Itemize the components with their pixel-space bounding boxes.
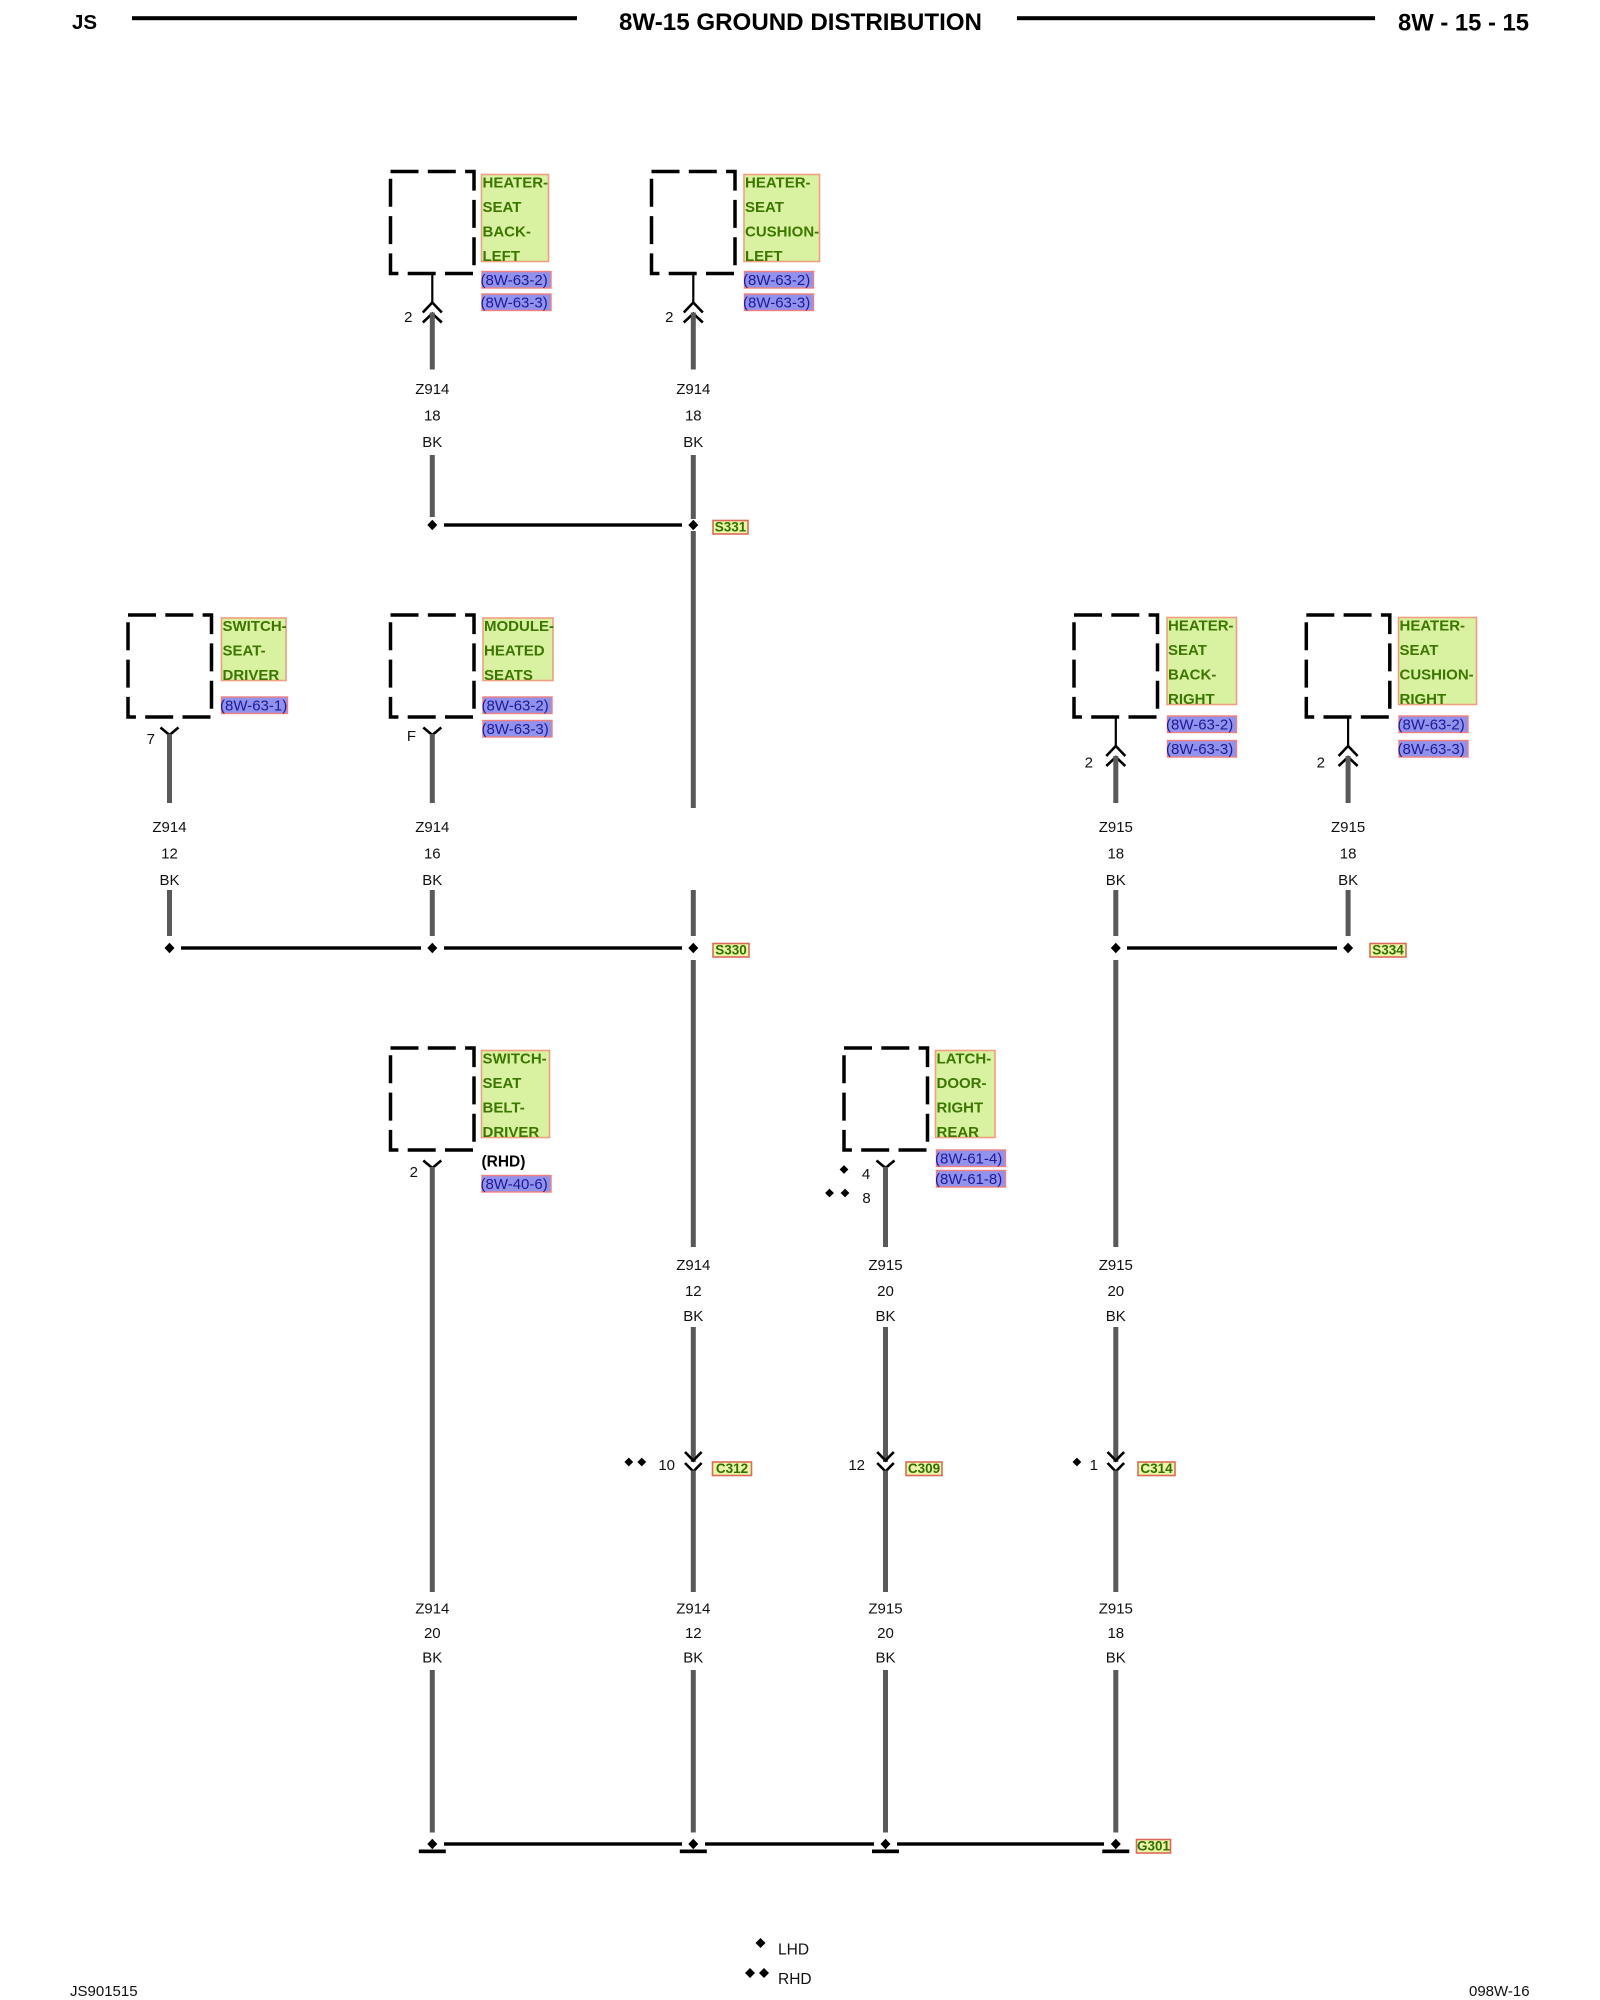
svg-text:BK: BK [422, 872, 442, 889]
ground G301 junction diamond col B [688, 1839, 698, 1850]
svg-text:SEAT: SEAT [1400, 642, 1439, 659]
svg-text:CUSHION-: CUSHION- [745, 224, 819, 241]
wire Z914 18 BK to splice S331 (cushion-left) [691, 455, 696, 519]
wire Z914 16 BK upper segment (module) [430, 734, 435, 803]
svg-text:HEATER-: HEATER- [1400, 618, 1466, 635]
svg-text:(8W-63-2): (8W-63-2) [481, 272, 548, 289]
svg-text:RIGHT: RIGHT [937, 1100, 984, 1117]
svg-text:RIGHT: RIGHT [1400, 691, 1447, 708]
svg-text:BK: BK [1338, 872, 1358, 889]
connector HEATER-SEAT BACK-RIGHT [1074, 615, 1158, 717]
svg-text:18: 18 [1340, 846, 1357, 863]
connector label C309 [906, 1461, 942, 1476]
ref 8W-63-1 (switch-seat-driver) [220, 697, 288, 715]
ground G301 junction diamond col C [881, 1839, 891, 1850]
svg-text:BK: BK [1106, 872, 1126, 889]
svg-text:BK: BK [683, 1650, 703, 1667]
connector label C314 [1138, 1461, 1175, 1476]
svg-text:RHD: RHD [778, 1971, 812, 1988]
wire Z914 12 BK from S330 down (center column) [691, 960, 696, 1247]
svg-text:BACK-: BACK- [483, 224, 531, 241]
ref 8W-63-3 (cushion-left) [743, 294, 814, 312]
svg-text:LATCH-: LATCH- [937, 1051, 992, 1068]
svg-text:Z915: Z915 [868, 1601, 902, 1618]
svg-text:(8W-63-3): (8W-63-3) [482, 721, 549, 738]
connector HEATER-SEAT CUSHION-RIGHT [1306, 615, 1390, 717]
pin 1 LHD marker diamond (C314) [1073, 1458, 1082, 1467]
svg-text:12: 12 [685, 1283, 702, 1300]
svg-text:20: 20 [424, 1625, 441, 1642]
svg-text:(8W-63-3): (8W-63-3) [1166, 741, 1233, 758]
ref 8W-63-3 (back-left) [481, 294, 552, 312]
wire Z914 18 BK through S330 (center column) [691, 890, 696, 936]
label HEATER-SEAT BACK-LEFT [482, 175, 549, 266]
svg-text:G301: G301 [1137, 1839, 1171, 1854]
svg-text:(8W-63-3): (8W-63-3) [481, 295, 548, 312]
wire Z914 12 BK upper segment (switch-seat-driver) [167, 734, 172, 803]
splice S330 bus line right segment [444, 946, 682, 949]
svg-text:18: 18 [1107, 1625, 1124, 1642]
wire Z914 18 BK upper segment (cushion-left) [691, 313, 696, 370]
ref 8W-61-4 (latch) [935, 1150, 1006, 1168]
svg-text:12: 12 [161, 846, 178, 863]
svg-text:HEATER-: HEATER- [483, 175, 549, 192]
connector label C312 [713, 1461, 752, 1476]
wire Z915 20 BK from S334 down (right column) [1113, 960, 1118, 1247]
svg-text:Z914: Z914 [415, 1601, 449, 1618]
svg-text:Z915: Z915 [1099, 819, 1133, 836]
svg-text:(8W-63-2): (8W-63-2) [482, 698, 549, 715]
ref 8W-40-6 (seat belt switch) [481, 1176, 552, 1194]
svg-text:SWITCH-: SWITCH- [483, 1051, 547, 1068]
splice S334 bus line [1127, 946, 1337, 949]
connector fork symbol below LATCH-DOOR-RIGHT REAR [877, 1161, 895, 1169]
wire Z915 20 BK below C309 [883, 1471, 888, 1593]
ground G301 bus line segment 1 [444, 1842, 682, 1845]
inline connector symbol below HEATER-SEAT CUSHION-LEFT [684, 274, 703, 323]
svg-text:18: 18 [1107, 846, 1124, 863]
wire Z914 18 BK from S331 to label block [691, 531, 696, 808]
svg-text:HEATER-: HEATER- [745, 175, 811, 192]
label MODULE-HEATED SEATS [483, 618, 554, 684]
svg-text:(8W-63-2): (8W-63-2) [1398, 717, 1465, 734]
svg-text:SEAT: SEAT [1168, 642, 1207, 659]
svg-text:JS901515: JS901515 [70, 1983, 138, 2000]
wire Z914 18 BK upper segment (back-left) [430, 313, 435, 370]
connector HEATER-SEAT CUSHION-LEFT [652, 172, 736, 274]
svg-text:2: 2 [410, 1164, 418, 1181]
wire Z915 20 BK to ground G301 [883, 1670, 888, 1833]
svg-text:7: 7 [147, 731, 155, 748]
svg-text:BK: BK [1106, 1650, 1126, 1667]
ref 8W-63-3 (module-heated seats) [482, 721, 553, 739]
label LATCH-DOOR-RIGHT REAR [936, 1051, 996, 1142]
svg-text:SEAT: SEAT [483, 199, 522, 216]
svg-text:BK: BK [422, 1650, 442, 1667]
svg-text:12: 12 [848, 1457, 865, 1474]
svg-text:098W-16: 098W-16 [1469, 1983, 1530, 2000]
svg-text:S334: S334 [1372, 943, 1404, 958]
svg-text:DOOR-: DOOR- [937, 1075, 987, 1092]
svg-text:(RHD): (RHD) [482, 1154, 526, 1171]
wire Z914 12 BK below C312 [691, 1471, 696, 1593]
svg-text:Z915: Z915 [1099, 1257, 1133, 1274]
svg-text:F: F [407, 728, 416, 745]
svg-text:2: 2 [1317, 755, 1325, 772]
ground symbol bar col C [872, 1850, 899, 1854]
svg-text:Z914: Z914 [415, 819, 449, 836]
wire Z915 18 BK upper segment (back-right) [1113, 756, 1118, 803]
svg-text:BK: BK [422, 434, 442, 451]
wire Z915 18 BK upper segment (cushion-right) [1346, 756, 1351, 803]
svg-text:Z915: Z915 [1099, 1601, 1133, 1618]
svg-text:Z914: Z914 [152, 819, 186, 836]
svg-text:HEATED: HEATED [484, 643, 545, 660]
wire Z915 20 BK upper segment (latch) [883, 1167, 888, 1247]
svg-text:Z914: Z914 [676, 1601, 710, 1618]
header rule left [132, 16, 577, 20]
splice S334 junction diamond left [1111, 943, 1121, 954]
svg-text:Z914: Z914 [676, 381, 710, 398]
svg-text:RIGHT: RIGHT [1168, 691, 1215, 708]
svg-text:SEAT: SEAT [483, 1075, 522, 1092]
ref 8W-63-2 (module-heated seats) [482, 697, 553, 715]
inline connector symbol below HEATER-SEAT CUSHION-RIGHT [1339, 717, 1358, 766]
svg-text:C309: C309 [908, 1461, 940, 1476]
splice S330 junction diamond far-left [165, 943, 175, 954]
svg-text:4: 4 [862, 1166, 870, 1183]
wire Z914 12 BK to connector C312 [691, 1327, 696, 1462]
ref 8W-63-2 (cushion-right) [1398, 716, 1469, 734]
connector MODULE-HEATED SEATS [391, 615, 475, 717]
svg-text:SEATS: SEATS [484, 667, 533, 684]
svg-text:Z914: Z914 [676, 1257, 710, 1274]
svg-text:1: 1 [1090, 1457, 1098, 1474]
ref 8W-63-2 (back-right) [1166, 716, 1237, 734]
splice label S331 [713, 520, 748, 535]
label SWITCH-SEAT BELT-DRIVER [482, 1051, 550, 1142]
inline connector symbol below HEATER-SEAT BACK-LEFT [423, 274, 442, 323]
wire Z915 20 BK to connector C309 [883, 1327, 888, 1462]
svg-text:16: 16 [424, 846, 441, 863]
connector HEATER-SEAT BACK-LEFT [391, 172, 475, 274]
svg-text:(8W-63-3): (8W-63-3) [743, 295, 810, 312]
svg-text:10: 10 [658, 1457, 675, 1474]
svg-text:S331: S331 [715, 520, 747, 535]
svg-text:(8W-63-3): (8W-63-3) [1398, 741, 1465, 758]
pin 10 RHD marker diamonds (C312) [624, 1458, 633, 1467]
svg-text:BK: BK [683, 1308, 703, 1325]
svg-text:BK: BK [875, 1650, 895, 1667]
connector C314 chevron symbol [1108, 1452, 1125, 1472]
ground symbol bar col D [1102, 1850, 1129, 1854]
svg-text:LEFT: LEFT [745, 248, 783, 265]
svg-text:C312: C312 [716, 1461, 748, 1476]
connector fork symbol below SWITCH-SEAT BELT-DRIVER [423, 1161, 441, 1169]
svg-text:2: 2 [665, 309, 673, 326]
label HEATER-SEAT BACK-RIGHT [1167, 618, 1237, 709]
svg-text:(8W-63-2): (8W-63-2) [743, 272, 810, 289]
svg-text:2: 2 [404, 309, 412, 326]
svg-text:8W - 15 - 15: 8W - 15 - 15 [1398, 10, 1529, 37]
svg-text:12: 12 [685, 1625, 702, 1642]
wire Z914 18 BK to splice S331 (back-left) [430, 455, 435, 517]
splice S331 junction diamond left [427, 520, 437, 531]
splice label S330 [713, 943, 749, 958]
svg-text:18: 18 [424, 408, 441, 425]
wire Z914 12 BK to ground G301 [691, 1670, 696, 1833]
connector C312 chevron symbol [685, 1452, 702, 1472]
svg-text:8W-15 GROUND DISTRIBUTION: 8W-15 GROUND DISTRIBUTION [619, 9, 982, 36]
svg-text:SEAT: SEAT [745, 199, 784, 216]
splice S331 bus line [444, 523, 682, 526]
wire Z915 18 BK to splice S334 (cushion-right) [1346, 890, 1351, 936]
legend LHD marker diamond [756, 1938, 766, 1948]
svg-text:BELT-: BELT- [483, 1100, 525, 1117]
ground G301 junction diamond col A [427, 1839, 437, 1850]
svg-text:LEFT: LEFT [483, 248, 521, 265]
splice S331 junction diamond right [688, 520, 698, 531]
svg-text:CUSHION-: CUSHION- [1400, 667, 1474, 684]
svg-text:18: 18 [685, 408, 702, 425]
svg-text:DRIVER: DRIVER [223, 667, 280, 684]
svg-text:S330: S330 [715, 943, 747, 958]
svg-text:2: 2 [1085, 755, 1093, 772]
svg-text:20: 20 [877, 1283, 894, 1300]
svg-text:HEATER-: HEATER- [1168, 618, 1234, 635]
ground G301 junction diamond col D [1111, 1839, 1121, 1850]
legend RHD marker diamonds [745, 1968, 755, 1978]
connector SWITCH-SEAT-DRIVER [128, 615, 212, 717]
svg-text:BK: BK [683, 434, 703, 451]
svg-text:REAR: REAR [937, 1124, 980, 1141]
label HEATER-SEAT CUSHION-LEFT [744, 175, 820, 266]
svg-text:LHD: LHD [778, 1942, 809, 1959]
svg-text:BK: BK [875, 1308, 895, 1325]
svg-text:MODULE-: MODULE- [484, 618, 554, 635]
svg-text:BK: BK [159, 872, 179, 889]
svg-text:Z915: Z915 [1331, 819, 1365, 836]
svg-text:BK: BK [1106, 1308, 1126, 1325]
ground symbol bar col A [419, 1850, 446, 1854]
svg-text:8: 8 [862, 1190, 870, 1207]
connector C309 chevron symbol [877, 1452, 894, 1472]
ground G301 bus line segment 2 [705, 1842, 874, 1845]
ref 8W-63-2 (cushion-left) [743, 272, 814, 290]
label SWITCH-SEAT-DRIVER [222, 618, 287, 684]
svg-text:20: 20 [1107, 1283, 1124, 1300]
splice S330 bus line left segment [181, 946, 421, 949]
svg-text:SWITCH-: SWITCH- [223, 618, 287, 635]
svg-text:(8W-61-8): (8W-61-8) [935, 1171, 1002, 1188]
ground symbol bar col B [680, 1850, 707, 1854]
ground label G301 [1137, 1839, 1171, 1854]
splice S330 junction diamond right [688, 943, 698, 954]
wire Z915 18 BK to splice S334 (back-right) [1113, 890, 1118, 936]
svg-text:Z915: Z915 [868, 1257, 902, 1274]
wire Z914 20 BK to ground G301 [430, 1670, 435, 1833]
svg-text:20: 20 [877, 1625, 894, 1642]
wire Z914 20 BK long segment (seat belt switch) [430, 1167, 435, 1592]
svg-text:Z914: Z914 [415, 381, 449, 398]
ref 8W-61-8 (latch) [935, 1171, 1006, 1189]
connector fork symbol below MODULE-HEATED SEATS [423, 728, 441, 736]
svg-text:JS: JS [72, 11, 97, 34]
pin 4 LHD marker diamond (latch) [840, 1165, 849, 1174]
pin 8 RHD marker diamonds (latch) [825, 1189, 834, 1198]
svg-text:SEAT-: SEAT- [223, 643, 266, 660]
svg-text:DRIVER: DRIVER [483, 1124, 540, 1141]
connector LATCH-DOOR-RIGHT REAR [844, 1048, 928, 1150]
connector fork symbol below SWITCH-SEAT-DRIVER [161, 728, 179, 736]
ref 8W-63-3 (back-right) [1166, 741, 1237, 759]
ref 8W-63-3 (cushion-right) [1398, 741, 1469, 759]
splice S330 junction diamond middle [427, 943, 437, 954]
splice S334 junction diamond right [1343, 943, 1353, 954]
svg-text:BACK-: BACK- [1168, 667, 1216, 684]
svg-text:(8W-63-2): (8W-63-2) [1166, 717, 1233, 734]
label HEATER-SEAT CUSHION-RIGHT [1399, 618, 1477, 709]
inline connector symbol below HEATER-SEAT BACK-RIGHT [1106, 717, 1125, 766]
wire Z915 18 BK to ground G301 [1113, 1670, 1118, 1833]
wire Z915 18 BK below C314 [1113, 1471, 1118, 1593]
svg-text:(8W-40-6): (8W-40-6) [481, 1176, 548, 1193]
connector SWITCH-SEAT BELT-DRIVER [391, 1048, 475, 1150]
wire Z914 12 BK to splice S330 [167, 890, 172, 936]
wire Z915 20 BK to connector C314 [1113, 1327, 1118, 1462]
wire Z914 16 BK to splice S330 [430, 890, 435, 936]
svg-text:C314: C314 [1140, 1461, 1173, 1476]
svg-text:(8W-61-4): (8W-61-4) [935, 1151, 1002, 1168]
header rule right [1017, 16, 1375, 20]
ground G301 bus line segment 3 [897, 1842, 1104, 1845]
splice label S334 [1370, 943, 1406, 958]
ref 8W-63-2 (back-left) [481, 272, 552, 290]
svg-text:(8W-63-1): (8W-63-1) [220, 698, 287, 715]
